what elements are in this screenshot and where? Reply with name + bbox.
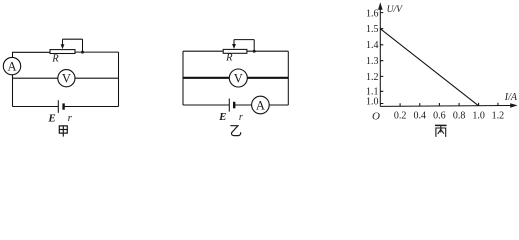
label 甲 (drawn glyph): [59, 126, 67, 137]
wire top-left corner to resistor R1 left: [13, 52, 51, 57]
svg-text:V: V: [62, 72, 71, 86]
svg-text:1.3: 1.3: [366, 56, 379, 67]
svg-text:0.6: 0.6: [433, 111, 446, 122]
svg-text:E: E: [47, 113, 55, 125]
wire middle thick voltmeter to right (乙): [247, 77, 288, 79]
wiper top wire (乙): [234, 39, 254, 41]
x axis arrowhead: [510, 103, 517, 108]
svg-text:1.6: 1.6: [366, 9, 379, 20]
wire resistor right to top-right corner: [75, 51, 119, 53]
svg-text:I/A: I/A: [504, 92, 518, 103]
wiper arrowhead (甲): [61, 44, 65, 49]
wiper right drop wire (乙): [253, 40, 255, 52]
svg-text:1.0: 1.0: [472, 111, 485, 122]
U-I line: [380, 29, 478, 106]
svg-text:R: R: [225, 53, 233, 64]
wire right vertical (乙): [287, 51, 289, 105]
svg-text:V: V: [234, 72, 243, 86]
wiper arrow shaft (乙): [233, 40, 235, 46]
y ticks: [380, 13, 383, 104]
junction dot (乙): [253, 50, 256, 53]
svg-text:A: A: [7, 60, 16, 74]
svg-text:1.5: 1.5: [366, 24, 379, 35]
ammeter A (乙): [252, 96, 270, 114]
wire voltmeter to middle right: [75, 77, 119, 79]
voltmeter V (甲): [58, 70, 75, 87]
wire battery to ammeter (乙): [234, 104, 252, 106]
wire top right (乙): [247, 50, 288, 52]
junction dot (甲): [81, 51, 84, 54]
wire middle thick left to voltmeter (乙): [183, 77, 229, 79]
wire bottom left to battery (乙): [183, 104, 229, 106]
wiper right drop wire (甲): [82, 39, 84, 52]
wire left vertical (乙): [182, 51, 184, 105]
ammeter A (甲): [3, 57, 20, 74]
y axis arrowhead: [378, 2, 383, 10]
svg-text:U/V: U/V: [387, 5, 404, 15]
battery E long plate (甲): [57, 100, 59, 113]
wire bottom left to battery: [13, 106, 59, 108]
svg-text:1.4: 1.4: [366, 40, 379, 51]
battery E long plate (乙): [228, 99, 230, 112]
y axis: [379, 5, 381, 106]
resistor R (乙) box: [223, 49, 247, 53]
label 乙 (drawn glyph): [230, 126, 240, 136]
svg-text:0.8: 0.8: [453, 111, 466, 122]
svg-text:r: r: [239, 112, 243, 123]
wire left vertical below ammeter: [12, 75, 14, 107]
svg-text:1.2: 1.2: [366, 72, 379, 83]
svg-text:R: R: [51, 53, 59, 64]
wire battery to bottom right: [64, 106, 119, 108]
wire right vertical: [118, 52, 120, 106]
battery E short plate (乙): [233, 102, 235, 109]
wiper arrowhead (乙): [232, 44, 236, 49]
svg-text:0.4: 0.4: [414, 111, 427, 122]
wire ammeter to bottom right (乙): [269, 104, 288, 106]
battery E short plate (甲): [62, 103, 64, 109]
label 丙 (drawn glyph): [435, 125, 447, 136]
wiper top wire (甲): [63, 38, 83, 40]
x axis: [380, 105, 511, 108]
resistor R (甲) box: [50, 50, 75, 54]
svg-text:r: r: [68, 112, 73, 124]
voltmeter V (乙): [229, 69, 247, 87]
wire top left (乙): [183, 50, 223, 52]
svg-text:0.2: 0.2: [394, 111, 407, 122]
svg-text:A: A: [256, 99, 265, 113]
svg-text:1.2: 1.2: [492, 111, 505, 122]
x ticks: [400, 103, 498, 107]
wiper arrow shaft (甲): [62, 39, 64, 46]
svg-text:O: O: [372, 111, 380, 123]
svg-text:1.0: 1.0: [366, 97, 379, 108]
svg-text:E: E: [218, 111, 226, 123]
wire middle left to voltmeter: [13, 77, 58, 79]
